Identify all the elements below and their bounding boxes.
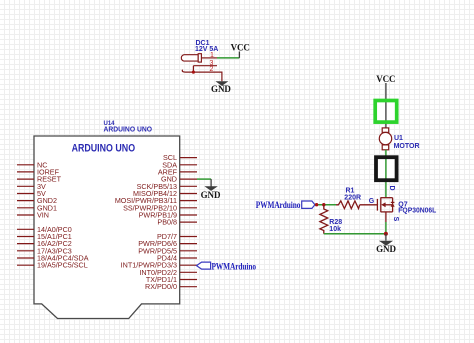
gate bar (376, 199, 378, 211)
junction at DC1 pin2 (192, 71, 195, 74)
body arrow of Q7 (381, 202, 385, 207)
value 220R label (344, 194, 361, 201)
refdes R1 label (346, 188, 355, 195)
pin 5V (17, 193, 34, 195)
net flag PWMArduino at R28 (256, 200, 315, 210)
green highlight square on VCC-motor wire (375, 99, 397, 124)
svg-text:GND: GND (201, 190, 221, 200)
power flag VCC at motor (376, 74, 395, 128)
pin AREF (180, 171, 197, 173)
pin GND (180, 178, 197, 180)
power flag VCC at DC1 (231, 42, 250, 58)
pin PB0/8 (180, 221, 197, 223)
wire PWMArduino to R1 (315, 204, 336, 206)
svg-text:2: 2 (210, 66, 214, 73)
svg-text:VCC: VCC (376, 74, 395, 84)
wire motor to MOSFET drain (385, 150, 387, 198)
svg-text:220R: 220R (344, 194, 361, 201)
svg-text:10k: 10k (329, 226, 341, 233)
refdes U14 label (104, 121, 116, 127)
DC1 pin 1 (201, 52, 217, 59)
resistor R28 (320, 205, 328, 234)
pin PD4/4 (180, 257, 197, 259)
svg-text:VIN: VIN (37, 211, 49, 220)
left pin names (37, 160, 89, 269)
pin NC (17, 164, 34, 166)
black highlight square on motor-drain wire (376, 157, 397, 180)
source horizontal (381, 211, 393, 213)
refdes Q7 label (398, 202, 407, 209)
channel bar (380, 197, 382, 212)
pin PWR/PD6/6 (180, 243, 197, 245)
DC1 pin 2 (186, 66, 218, 73)
svg-text:GND: GND (376, 244, 396, 254)
wire from U14 GND pin (197, 178, 211, 180)
right bar drain-source (392, 198, 394, 212)
svg-text:12V 5A: 12V 5A (195, 46, 218, 53)
wire DC1 pin2 to ground (217, 72, 222, 81)
wire Q7 source to ground junction (385, 222, 387, 234)
value MOTOR label (394, 143, 420, 150)
pin 3V (17, 185, 34, 187)
pin label G (369, 198, 375, 205)
right pin names (115, 153, 178, 291)
svg-text:ARDUINO UNO: ARDUINO UNO (104, 124, 153, 133)
junction at flag tip (315, 203, 318, 206)
DC1 hook (switch contact) (182, 70, 185, 72)
pin PWR/PD5/5 (180, 250, 197, 252)
refdes R28 label (329, 219, 342, 226)
pin SS/PWR/PB2/10 (180, 207, 197, 209)
body diode of Q7 (391, 202, 395, 206)
pin INT1/PWR/PD3/3 (180, 264, 197, 266)
pin label D (388, 186, 395, 191)
wire R28 to source junction (ground rail) (324, 233, 386, 235)
value FQP30N06L label (398, 207, 437, 214)
pin 17/A3/PC3 (17, 250, 34, 252)
ground symbol at DC1 (215, 81, 228, 86)
svg-text:S: S (392, 217, 399, 222)
IC U14 Arduino Uno body (34, 136, 180, 319)
pin INT0/PD2/2 (180, 271, 197, 273)
drain horizontal (381, 197, 393, 199)
pin RESET (17, 178, 34, 180)
pin MISO/PB4/12 (180, 193, 197, 195)
svg-text:D: D (388, 186, 395, 191)
refdes U1 label (394, 135, 403, 142)
right pin stubs U14 (180, 158, 197, 287)
svg-text:RX/PD0/0: RX/PD0/0 (145, 282, 177, 291)
pin GND1 (17, 207, 34, 209)
svg-text:PB0/8: PB0/8 (157, 218, 177, 227)
part name ARDUINO UNO label (104, 124, 153, 133)
pin IOREF (17, 171, 34, 173)
resistor R1 (336, 201, 360, 209)
pin 15/A1/PC1 (17, 236, 34, 238)
gate pin (360, 204, 378, 206)
svg-text:1: 1 (210, 52, 214, 59)
net flag PWMArduino at pin INT1/PWR/PD3/3 (197, 261, 257, 271)
svg-text:PWMArduino: PWMArduino (256, 200, 301, 210)
svg-text:FQP30N06L: FQP30N06L (398, 207, 437, 214)
body horizontal (385, 204, 393, 206)
net label GND at U14 (201, 190, 221, 200)
svg-text:ARDUINO UNO: ARDUINO UNO (72, 143, 136, 155)
ground symbol at Q7 source (379, 234, 393, 246)
pin 18/A4/PC4/SDA (17, 257, 34, 259)
pin MOSI/PWR/PB3/11 (180, 200, 197, 202)
pin GND2 (17, 200, 34, 202)
left pin stubs U14 (17, 165, 34, 265)
svg-text:GND: GND (211, 84, 231, 94)
junction at R28 top (322, 203, 325, 206)
transistor Q7 FQP30N06L (360, 197, 393, 222)
pin 14/A0/PC0 (17, 228, 34, 230)
source pin (385, 212, 387, 222)
pin SCK/PB5/13 (180, 185, 197, 187)
pin 19/A5/PC5/SCL (17, 264, 34, 266)
pin SDA (180, 164, 197, 166)
net label GND at DC1 (211, 84, 231, 94)
pin PWR/PB1/9 (180, 214, 197, 216)
pin SCL (180, 157, 197, 159)
junction at source/ground rail (384, 232, 388, 236)
pin RX/PD0/0 (180, 286, 197, 288)
motor U1 (379, 128, 391, 150)
pin VIN (17, 214, 34, 216)
value 12V 5A label (195, 46, 218, 53)
svg-text:U1: U1 (394, 135, 403, 142)
ground symbol at U14 GND (204, 179, 217, 191)
title ARDUINO UNO inside body (72, 143, 136, 155)
pin 16/A2/PC2 (17, 243, 34, 245)
svg-text:19/A5/PC5/SCL: 19/A5/PC5/SCL (37, 261, 88, 270)
pin PD7/7 (180, 236, 197, 238)
svg-text:VCC: VCC (231, 42, 250, 52)
svg-text:PWMArduino: PWMArduino (212, 261, 257, 271)
DC1 pin 3 (193, 60, 217, 67)
svg-text:G: G (369, 198, 375, 205)
wire pin3 to pin2 (192, 66, 194, 72)
refdes DC1 label (196, 40, 210, 47)
svg-text:MOTOR: MOTOR (394, 143, 420, 150)
value 10k label (329, 226, 341, 233)
wire DC1 pin1 to VCC (217, 57, 239, 59)
connector DC1 barrel jack (181, 54, 201, 62)
net label GND at Q7 source (376, 244, 396, 254)
pin TX/PD1/1 (180, 279, 197, 281)
pin label S (392, 217, 399, 222)
